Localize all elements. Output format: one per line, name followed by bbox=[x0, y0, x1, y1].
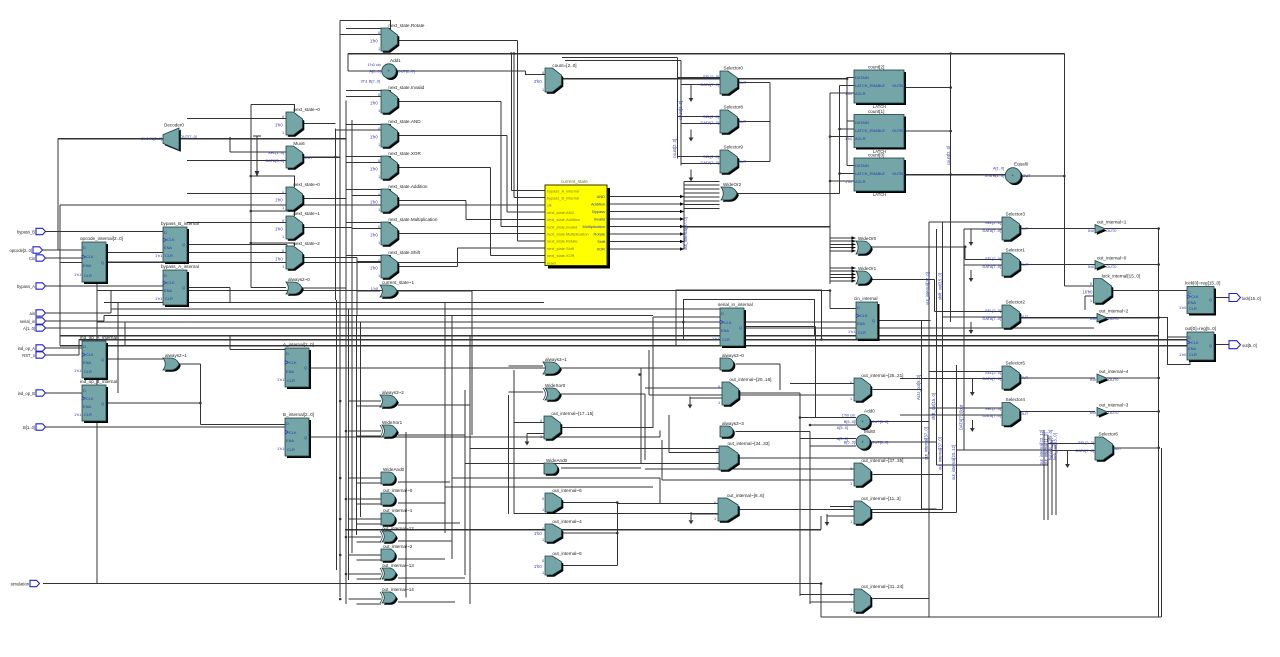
svg-text:1: 1 bbox=[850, 481, 852, 486]
wire bypass_A pin bbox=[45, 285, 163, 287]
wire opcode to decoder bbox=[45, 249, 58, 251]
svg-text:Q: Q bbox=[182, 242, 185, 247]
svg-text:current_state~1: current_state~1 bbox=[382, 280, 414, 285]
register lock[0]=reg[15..0] bbox=[1179, 281, 1220, 316]
wire sel5 sel bbox=[929, 371, 1002, 373]
wire serial vert 653 bbox=[652, 317, 654, 428]
svg-text:OUT[5..0]: OUT[5..0] bbox=[872, 419, 889, 424]
mux next_state.Addition bbox=[370, 184, 428, 214]
wire colB sel loop 1 bbox=[346, 91, 391, 94]
mux next_state.Shift bbox=[370, 250, 421, 280]
wire out20 in1 bbox=[645, 387, 722, 389]
wire sel3 sel bbox=[929, 221, 1002, 223]
svg-text:next_state.Rotate: next_state.Rotate bbox=[388, 23, 424, 28]
wire indopB q bbox=[106, 402, 200, 404]
svg-text:RST_n: RST_n bbox=[22, 353, 35, 358]
wire band1 Cin net bbox=[97, 290, 830, 292]
svg-text:always3~1: always3~1 bbox=[545, 357, 567, 362]
svg-text:Bypass: Bypass bbox=[592, 209, 605, 214]
junction gate1 7 bbox=[345, 573, 348, 576]
svg-text:LATCH: LATCH bbox=[873, 192, 886, 197]
svg-text:ind_op_A: ind_op_A bbox=[18, 346, 36, 351]
wire gate1 in 6b bbox=[357, 559, 382, 561]
svg-text:out_internal~0: out_internal~0 bbox=[1097, 256, 1127, 261]
wire out34 in1 bbox=[669, 452, 719, 454]
svg-text:A[2..0]: A[2..0] bbox=[370, 69, 381, 74]
wire gate1 in 5a bbox=[349, 536, 382, 538]
input pin opcode[2..0] bbox=[9, 247, 42, 253]
input pin simulation bbox=[11, 580, 40, 586]
svg-text:1: 1 bbox=[542, 507, 544, 512]
xor-gate WideXor1 bbox=[380, 420, 403, 439]
wire sel0 out bbox=[738, 82, 771, 84]
wire latch1 aclr bbox=[830, 136, 854, 138]
wire ladder 356 bbox=[356, 316, 358, 536]
svg-text:out[0]=reg[5..0]: out[0]=reg[5..0] bbox=[1185, 326, 1216, 331]
wire latch2 out bbox=[906, 87, 951, 89]
wire serial loop B bbox=[683, 299, 814, 339]
svg-text:1: 1 bbox=[716, 465, 718, 470]
wire serial_in vertical bbox=[103, 316, 105, 322]
wire A reg out bbox=[310, 367, 720, 369]
svg-text:Q: Q bbox=[872, 318, 875, 323]
svg-text:D: D bbox=[721, 311, 724, 316]
wire shift in bbox=[357, 261, 381, 263]
wire gate1 in 4a bbox=[349, 518, 382, 520]
svg-text:Add1: Add1 bbox=[390, 58, 401, 63]
wire mid vert 513 bbox=[513, 370, 515, 514]
svg-text:SEL[2..0]: SEL[2..0] bbox=[985, 406, 1001, 411]
wire latch2 en bbox=[840, 85, 855, 87]
svg-text:1'h1: 1'h1 bbox=[277, 377, 284, 382]
ground near out_internal[11..3] bbox=[825, 514, 830, 526]
wire xor in bbox=[346, 162, 381, 164]
svg-text:serial_in_internal: serial_in_internal bbox=[718, 302, 753, 307]
wire always2~0 out bbox=[303, 287, 347, 289]
svg-text:1'h1: 1'h1 bbox=[74, 412, 81, 417]
wire A reg in bbox=[230, 349, 285, 351]
and-gate out_internal~0 bbox=[381, 488, 413, 507]
comparator Equal0 bbox=[985, 162, 1031, 185]
wire gate1 out 6 bbox=[398, 558, 445, 560]
svg-text:1'h0: 1'h0 bbox=[275, 197, 283, 202]
wire ind_op_A pin bbox=[45, 347, 82, 349]
wire sel5 gnd elbow bbox=[971, 379, 973, 385]
wire net 478 bbox=[452, 477, 660, 479]
svg-text:1'h0 IN[2..0]: 1'h0 IN[2..0] bbox=[141, 136, 162, 141]
wire band4 serial net bbox=[104, 315, 653, 317]
wire band7 bbox=[60, 335, 1159, 337]
svg-text:1: 1 bbox=[378, 174, 380, 179]
svg-text:out_internal~1: out_internal~1 bbox=[1097, 220, 1127, 225]
svg-text:next_state.Invalid: next_state.Invalid bbox=[547, 224, 577, 229]
wire bypassA drop bbox=[510, 54, 512, 191]
wire add1 A in bbox=[348, 70, 382, 72]
wire mux4 in bbox=[187, 222, 286, 224]
wire and out bbox=[398, 135, 507, 137]
wire gate1 in 2a bbox=[349, 477, 382, 479]
wire wideor2 stub 6 bbox=[684, 204, 720, 206]
svg-text:1: 1 bbox=[378, 46, 380, 51]
wire band3 bbox=[111, 308, 720, 310]
svg-text:CLK: CLK bbox=[86, 396, 94, 401]
svg-text:LATCH_ENABLE: LATCH_ENABLE bbox=[855, 171, 885, 176]
wire wideor2 vcol bbox=[683, 181, 685, 249]
wire colA sel2 bbox=[251, 176, 295, 187]
wire cs1 out bbox=[398, 290, 472, 292]
wire sel8 data bbox=[681, 123, 720, 125]
wire simulation net bbox=[43, 583, 821, 585]
svg-text:DATA[7..0]: DATA[7..0] bbox=[701, 82, 719, 87]
wire colB sel loop 6 bbox=[346, 256, 391, 259]
multiplier Mult0 bbox=[844, 429, 889, 451]
svg-text:Multiplication: Multiplication bbox=[583, 224, 606, 229]
wire shift out bbox=[398, 266, 458, 268]
wire add1 to countmux bbox=[526, 71, 546, 75]
wire fsm in row 9 bbox=[491, 254, 545, 256]
svg-text:next_state.Multiplication: next_state.Multiplication bbox=[547, 232, 589, 237]
svg-text:CLR: CLR bbox=[84, 273, 92, 278]
wire latch enable vert bbox=[839, 86, 841, 194]
svg-text:next_state.Invalid: next_state.Invalid bbox=[388, 85, 424, 90]
svg-text:OUT: OUT bbox=[738, 80, 747, 85]
svg-text:Selector9: Selector9 bbox=[724, 145, 744, 150]
junction count top bbox=[949, 52, 952, 55]
wire add0 in1 bbox=[800, 417, 856, 419]
wire out25 out bbox=[873, 389, 922, 391]
svg-text:DATA[7..0]: DATA[7..0] bbox=[983, 228, 1001, 233]
selector Selector3 bbox=[983, 212, 1029, 242]
wire invalid out bbox=[398, 101, 501, 103]
wire decoder in vert bbox=[57, 139, 59, 251]
svg-text:OUTB: OUTB bbox=[892, 171, 903, 176]
svg-text:Add0: Add0 bbox=[864, 409, 875, 414]
wire wideor1 stub 0 bbox=[830, 267, 856, 269]
wire latch aclr vert bbox=[829, 93, 831, 284]
xor-gate out_internal~14 bbox=[380, 587, 414, 605]
wire fsm in row 8 bbox=[458, 247, 545, 249]
wire colA out4 bbox=[303, 227, 352, 229]
svg-text:SEL[2..0]: SEL[2..0] bbox=[985, 220, 1001, 225]
junction loopA bbox=[820, 338, 823, 341]
wire out17 out vert bbox=[652, 317, 654, 428]
wire colA vert 357 bbox=[356, 258, 358, 316]
wire lockmux in1 bbox=[1085, 295, 1094, 297]
wire always3~3 out bbox=[736, 431, 811, 433]
wire mult0 in1 bbox=[800, 438, 856, 440]
svg-text:out_internal~[17..15]: out_internal~[17..15] bbox=[551, 411, 593, 416]
wire mux5 in bbox=[107, 252, 286, 254]
wire out20 out bbox=[739, 392, 801, 394]
mux out_internal~[11..3] bbox=[850, 496, 901, 526]
junction simulation loop bbox=[820, 582, 823, 585]
arrow fsm out 2 bbox=[680, 210, 684, 214]
svg-text:CLK: CLK bbox=[860, 313, 868, 318]
wire fsm in row 0 bbox=[511, 190, 545, 192]
junction cin bbox=[829, 289, 832, 292]
svg-text:ENA: ENA bbox=[721, 328, 729, 333]
wire rv 942 bbox=[942, 222, 944, 510]
svg-text:out_internal~4: out_internal~4 bbox=[1099, 369, 1129, 374]
latch count[0] bbox=[845, 153, 906, 198]
wire add1 out bbox=[397, 70, 526, 72]
wire colB vert 352 bbox=[351, 120, 353, 309]
wire colB vert 340 bbox=[339, 34, 341, 290]
svg-text:1'h0: 1'h0 bbox=[275, 226, 283, 231]
wire mult in bbox=[352, 228, 381, 230]
wire net 529 rise bbox=[820, 516, 822, 530]
wire colA loop vert bbox=[250, 104, 252, 287]
wire ladder 346ext bbox=[345, 303, 347, 605]
wire band2 bbox=[104, 302, 544, 304]
svg-text:XOR: XOR bbox=[597, 247, 606, 252]
junction colA 243 bbox=[250, 242, 253, 245]
and-gate out_internal~2 bbox=[381, 544, 413, 563]
svg-text:ENA: ENA bbox=[286, 438, 294, 443]
svg-text:1'h1: 1'h1 bbox=[277, 446, 284, 451]
svg-text:CLR: CLR bbox=[722, 337, 730, 342]
or-gate always2~0 bbox=[286, 277, 310, 296]
wire mid vert 452 bbox=[451, 316, 453, 560]
wire wideor2 stub 3 bbox=[684, 192, 720, 194]
xor-gate WideXor0 bbox=[543, 383, 566, 402]
wire gate1 out 5 bbox=[398, 540, 452, 542]
svg-text:next_state.XOR: next_state.XOR bbox=[388, 151, 421, 156]
wire wideor0 stub 1 bbox=[830, 240, 856, 242]
wire clk net bbox=[60, 204, 545, 206]
wire out reg d bbox=[1168, 336, 1187, 338]
svg-text:WideOr2: WideOr2 bbox=[723, 182, 742, 187]
wire wideor0 drop bbox=[964, 247, 966, 260]
junction buf0 bbox=[1157, 263, 1160, 266]
wire latch0 out to equal bbox=[906, 174, 1005, 176]
wire lockmux out bbox=[1112, 290, 1187, 292]
wire sel6 out bbox=[1113, 447, 1159, 449]
output pin lock[15..0] bbox=[1229, 294, 1261, 302]
wire gate1 out 2 bbox=[398, 481, 450, 483]
wire 780 drop bbox=[779, 364, 781, 390]
svg-text:OUT: OUT bbox=[1020, 411, 1029, 416]
svg-text:DATA[3..0]: DATA[3..0] bbox=[266, 158, 284, 163]
wire sel1 data bbox=[964, 264, 1002, 266]
wire Cin pin bbox=[45, 257, 97, 259]
and-gate out_internal~1 bbox=[381, 508, 413, 527]
junction gate1 5 bbox=[345, 536, 348, 539]
junction bypassB bbox=[513, 52, 516, 55]
input pin B[1..0] bbox=[23, 424, 45, 430]
wire sel8 out bbox=[738, 121, 771, 123]
ground near out_internal[20..16] bbox=[688, 397, 693, 409]
wire buf1 out bbox=[1105, 228, 1159, 230]
wire rnet 465 bbox=[937, 464, 1049, 466]
junction countmux latch bbox=[846, 77, 849, 80]
svg-text:IN0: IN0 bbox=[1088, 264, 1095, 269]
svg-text:CLK: CLK bbox=[167, 237, 175, 242]
wire colA sel4 bbox=[251, 243, 295, 246]
svg-text:count[1]: count[1] bbox=[868, 109, 884, 114]
wire fsm in row 1 bbox=[514, 197, 545, 199]
svg-text:OUT: OUT bbox=[1020, 226, 1029, 231]
svg-text:DATA[7..0]: DATA[7..0] bbox=[983, 316, 1001, 321]
svg-text:D: D bbox=[83, 344, 86, 349]
wire colA out1 bbox=[303, 123, 336, 125]
svg-text:out_internal~3: out_internal~3 bbox=[1099, 403, 1129, 408]
wire fsm in row 4 bbox=[466, 218, 545, 220]
wire out11 in1 bbox=[830, 506, 854, 508]
wire opcode q bbox=[106, 261, 163, 263]
svg-text:1'h1: 1'h1 bbox=[712, 336, 719, 341]
svg-text:always2~1: always2~1 bbox=[165, 353, 187, 358]
mux Mux6 bbox=[286, 141, 305, 170]
svg-text:ENA: ENA bbox=[83, 263, 91, 268]
svg-text:1'h0: 1'h0 bbox=[370, 38, 378, 43]
svg-text:LATCH_ENABLE: LATCH_ENABLE bbox=[855, 128, 885, 133]
mux out_internal~[37..35] bbox=[850, 458, 903, 488]
wire decoder in bbox=[58, 138, 163, 140]
junction equal out bbox=[1063, 175, 1066, 178]
wire left v 118 bbox=[117, 303, 119, 394]
wire reset vert left bbox=[59, 263, 61, 346]
input pin bypass_B bbox=[17, 228, 45, 234]
svg-text:1'h1: 1'h1 bbox=[155, 253, 162, 258]
wire mid vert 445 bbox=[444, 303, 446, 534]
svg-text:out_internal~13: out_internal~13 bbox=[382, 563, 414, 568]
wire gate1 in 1b bbox=[357, 435, 382, 437]
wire widexor0 in bbox=[509, 391, 544, 393]
svg-text:1'h0: 1'h0 bbox=[1179, 305, 1187, 310]
ground under Selector1 bbox=[969, 270, 974, 282]
wire ladder 352ext bbox=[351, 309, 353, 553]
wire latch0 aclr bbox=[830, 180, 854, 182]
mux out_internal~[17..15] bbox=[540, 411, 593, 441]
arrow fsm out 6 bbox=[680, 240, 684, 244]
wire rnet 449 bbox=[956, 449, 1052, 451]
wire sel6 v1 bbox=[1043, 430, 1045, 520]
mux out_internal~[34..33] bbox=[716, 441, 770, 472]
junction gate1 8 bbox=[339, 598, 342, 601]
buffer out_internal~2 bbox=[1090, 309, 1129, 324]
wire out8 gnd elbow bbox=[691, 512, 718, 514]
and-gate always3~3 bbox=[720, 421, 744, 439]
svg-text:OUT[7..0]: OUT[7..0] bbox=[180, 134, 197, 139]
or-gate always3~1 bbox=[543, 357, 567, 376]
svg-text:Mux6: Mux6 bbox=[293, 141, 305, 146]
svg-text:WideOr1: WideOr1 bbox=[858, 266, 877, 271]
svg-text:ACLR: ACLR bbox=[855, 91, 866, 96]
svg-text:SEL[1..0]: SEL[1..0] bbox=[268, 150, 284, 155]
svg-text:A[1..0]: A[1..0] bbox=[23, 326, 35, 331]
svg-text:CLK: CLK bbox=[289, 360, 297, 365]
wire net 478 drop bbox=[659, 478, 661, 503]
or-gate always3~2 bbox=[380, 390, 404, 409]
adder Add1 bbox=[368, 58, 415, 80]
svg-text:OUT: OUT bbox=[1020, 262, 1029, 267]
svg-text:CLK: CLK bbox=[167, 280, 175, 285]
junction colA 211 bbox=[250, 210, 253, 213]
svg-text:1'h1: 1'h1 bbox=[848, 329, 855, 334]
wire out31 in1 bbox=[800, 594, 854, 596]
mux next_state~0 colA bbox=[275, 107, 320, 137]
svg-text:CLR: CLR bbox=[287, 378, 295, 383]
wire sel4 data bbox=[900, 414, 1002, 416]
wire out31 out bbox=[873, 598, 929, 600]
junction add0 in bbox=[799, 416, 802, 419]
svg-text:SEL[2..0]: SEL[2..0] bbox=[703, 114, 719, 119]
wire gate1 out 0 bbox=[398, 404, 470, 406]
svg-text:WideXor1: WideXor1 bbox=[382, 420, 403, 425]
wire wideor2 stub 2 bbox=[684, 188, 720, 190]
wire out20 gnd elbow bbox=[690, 397, 722, 399]
wire wideor2 out bbox=[738, 193, 840, 195]
wire 928 bottom bbox=[928, 599, 930, 618]
arrow fsm out 5 bbox=[680, 232, 684, 236]
svg-text:1'h0: 1'h0 bbox=[370, 199, 378, 204]
wire out34 in1 vert bbox=[668, 415, 670, 453]
input pin Cin bbox=[29, 255, 46, 261]
wire bypass_B pin to reg bbox=[45, 231, 163, 233]
register B_internal[2..0] bbox=[277, 412, 314, 458]
wire colA sel1 bbox=[251, 104, 295, 112]
wire out17 gnd elbow bbox=[527, 433, 544, 435]
wire latch1 en bbox=[840, 128, 855, 130]
arrow wideor1 stub 0 bbox=[852, 266, 856, 270]
wire gate1 in 8a bbox=[349, 598, 382, 600]
svg-text:bypass_B: bypass_B bbox=[17, 229, 35, 234]
wire always2~1 out bbox=[179, 363, 201, 365]
wire out11 out bbox=[873, 512, 957, 514]
arrow wideor0 stub 0 bbox=[852, 236, 856, 240]
svg-text:1: 1 bbox=[378, 207, 380, 212]
ground under Selector4 bbox=[970, 420, 975, 432]
svg-text:B[5..0]: B[5..0] bbox=[844, 419, 855, 424]
svg-text:OUT: OUT bbox=[1113, 446, 1122, 451]
svg-text:CLR: CLR bbox=[287, 447, 295, 452]
svg-text:A[5..0]: A[5..0] bbox=[837, 436, 848, 441]
svg-text:Selector3: Selector3 bbox=[1006, 212, 1026, 217]
wire sel out collect bbox=[769, 83, 771, 162]
svg-text:Q: Q bbox=[101, 357, 104, 362]
svg-text:A[1..0]: A[1..0] bbox=[993, 166, 1004, 171]
svg-text:AND: AND bbox=[597, 194, 605, 199]
arrow fsm out 7 bbox=[680, 247, 684, 251]
svg-text:out_internal~[37..35]: out_internal~[37..35] bbox=[861, 458, 903, 463]
wire bypassB q vert bbox=[286, 245, 288, 253]
wire widexor0 out bbox=[561, 393, 645, 395]
junction colA 176 bbox=[250, 175, 253, 178]
svg-text:Q: Q bbox=[1209, 343, 1212, 348]
svg-text:SEL[2..0]: SEL[2..0] bbox=[703, 154, 719, 159]
mux count=[2..0] bbox=[534, 63, 577, 94]
arrow wideor1 stub 3 bbox=[852, 276, 856, 280]
wire 641 vert bbox=[640, 368, 642, 464]
wire sel1 sel bbox=[965, 259, 1002, 261]
svg-text:count[2..0]: count[2..0] bbox=[672, 139, 677, 158]
svg-text:opcode[2..0]: opcode[2..0] bbox=[9, 248, 32, 253]
svg-text:B_internal[2..0]: B_internal[2..0] bbox=[283, 412, 314, 417]
junction gate1 4 bbox=[339, 518, 342, 521]
wire sel3 gnd elbow bbox=[970, 229, 972, 234]
buffer out_internal~1 bbox=[1088, 220, 1127, 235]
wire cin d vert bbox=[829, 291, 831, 309]
svg-text:out_internal[23..12]: out_internal[23..12] bbox=[951, 445, 956, 480]
junction gate1 2 bbox=[339, 477, 342, 480]
wire fsm in row 6 bbox=[485, 233, 546, 235]
junction 684 mid bbox=[683, 225, 686, 228]
wire 645 drop bbox=[644, 394, 646, 460]
svg-text:1: 1 bbox=[850, 396, 852, 401]
svg-text:1: 1 bbox=[540, 434, 542, 439]
wire colB vert 346 bbox=[345, 101, 347, 303]
